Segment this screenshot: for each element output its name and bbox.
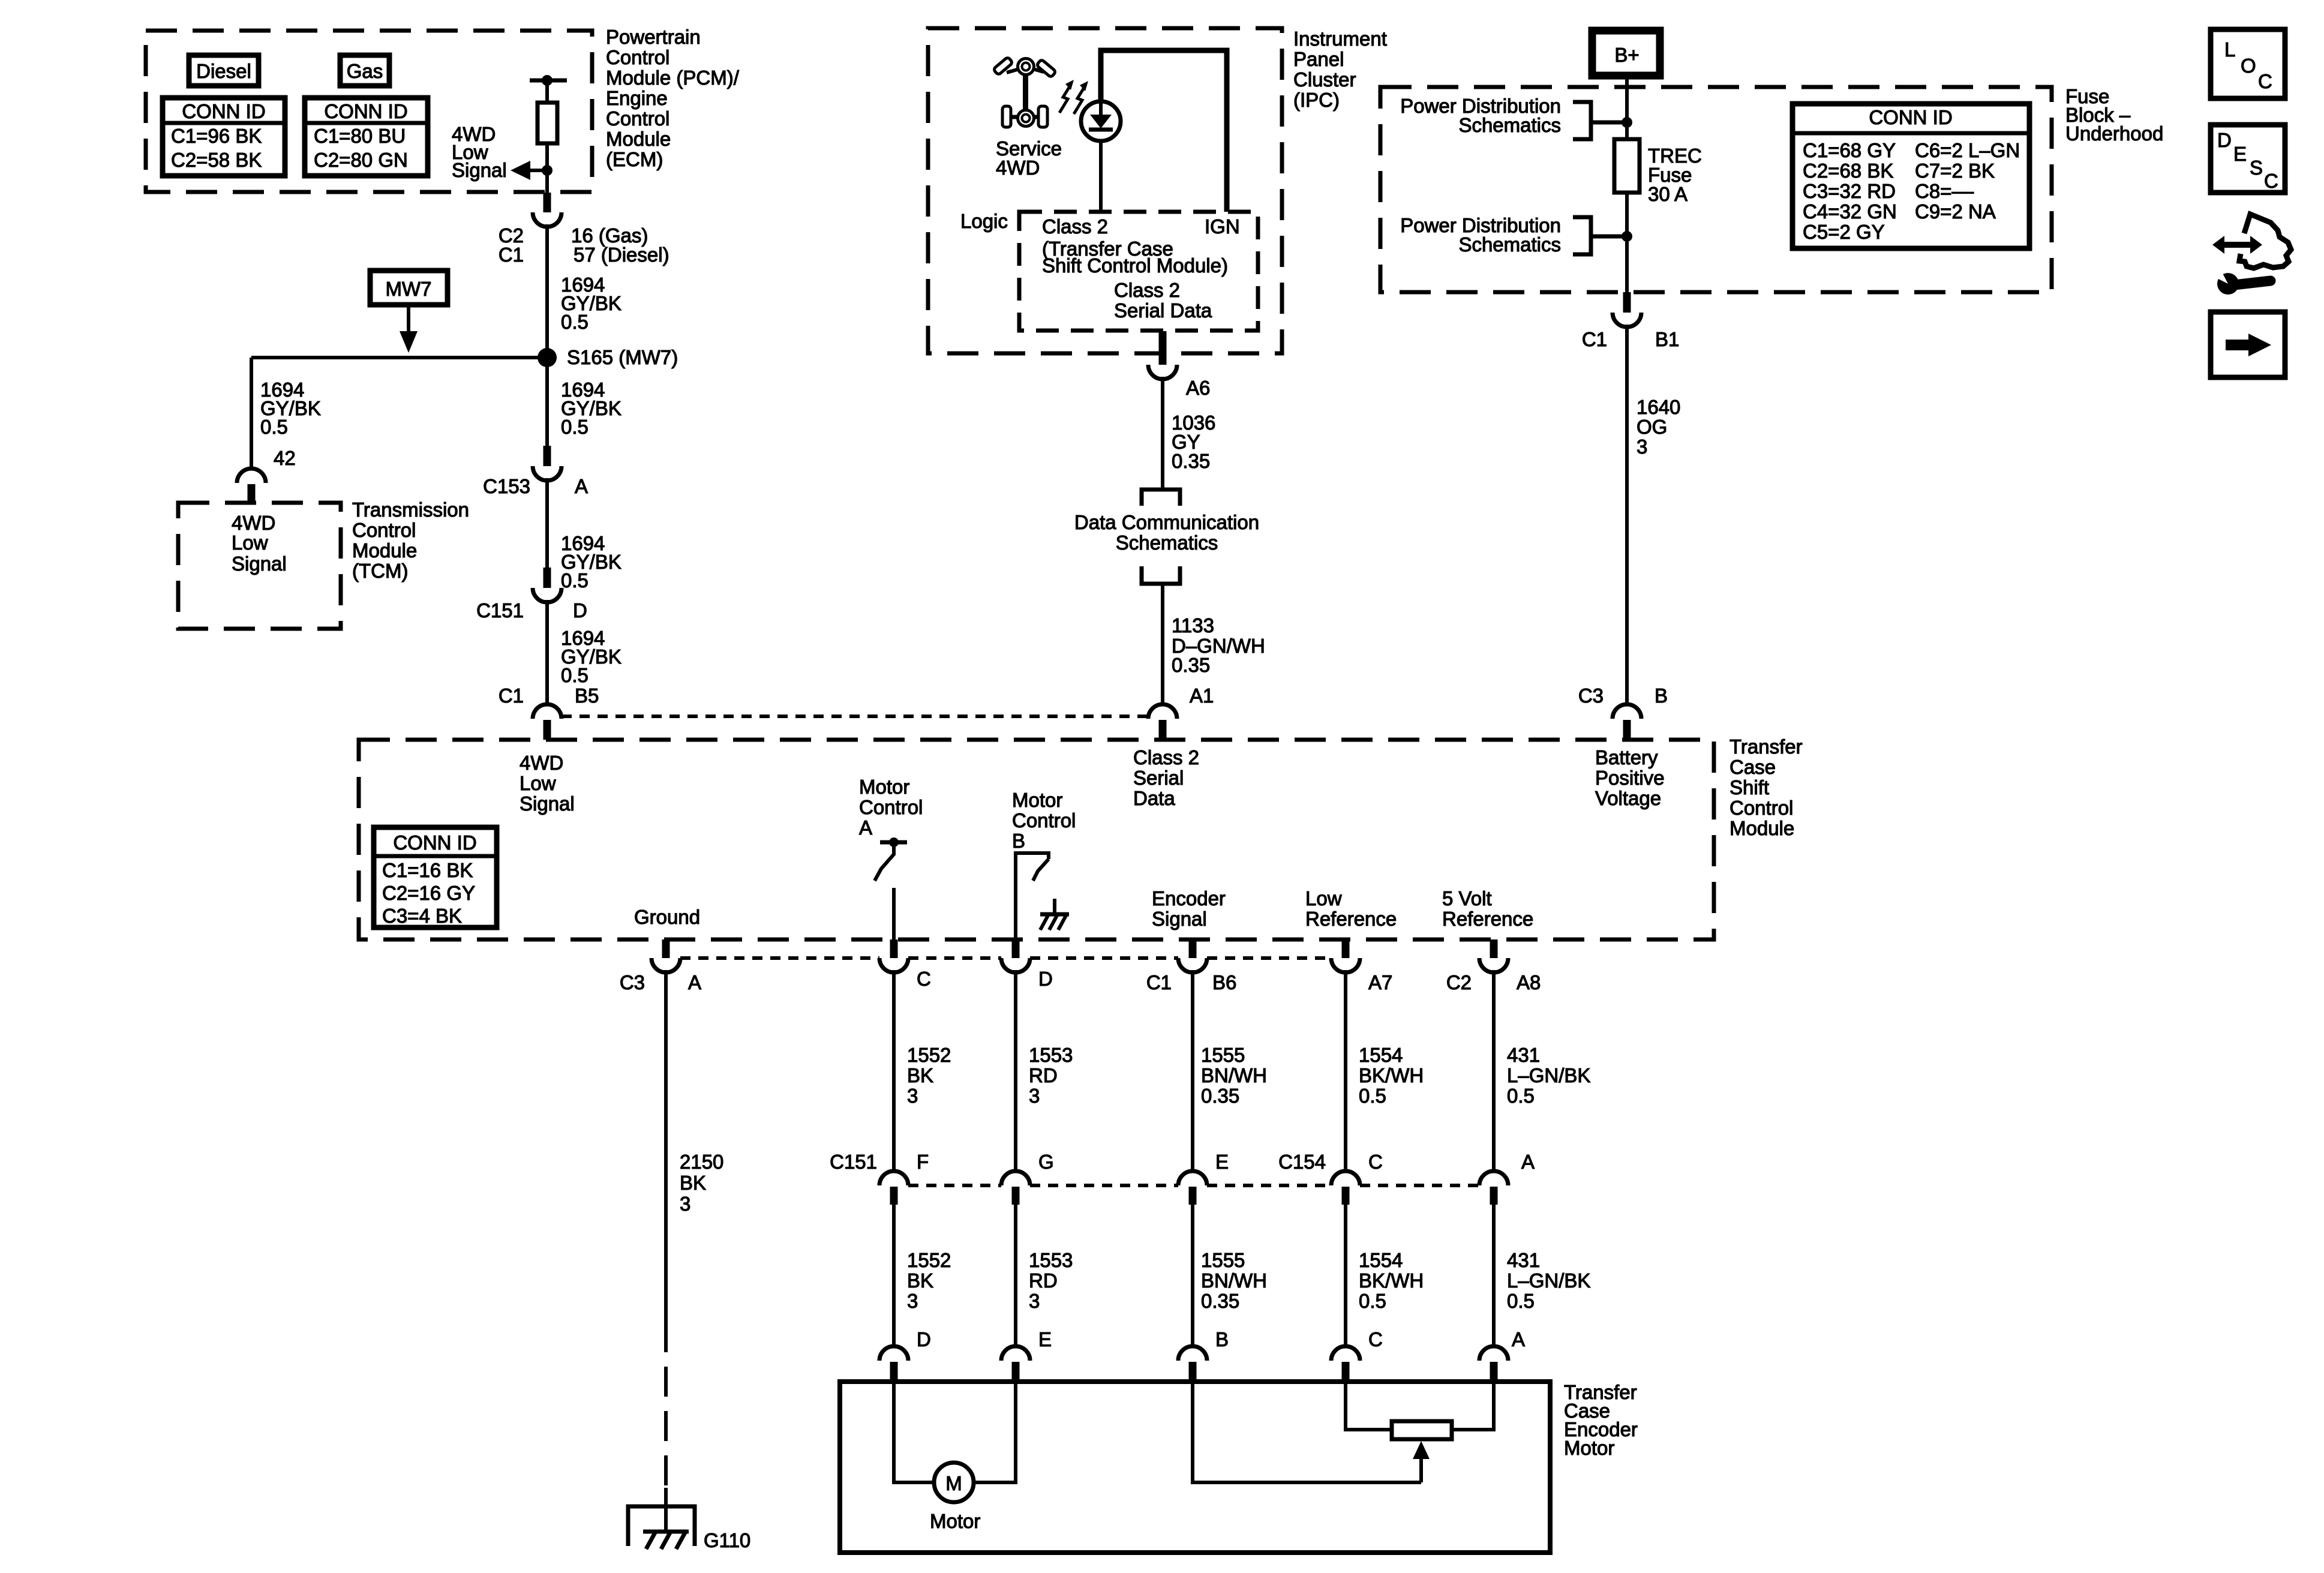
- icon: forward arrow: [2211, 312, 2285, 377]
- svg-text:D: D: [573, 599, 587, 622]
- svg-text:0.5: 0.5: [1507, 1290, 1535, 1312]
- svg-text:3: 3: [680, 1193, 690, 1215]
- svg-text:Low: Low: [1305, 887, 1342, 909]
- svg-text:431: 431: [1507, 1249, 1540, 1271]
- dotted link: C151/C154 row: [908, 1184, 1479, 1187]
- icon: LOC: [2211, 29, 2285, 98]
- module box: Fuse Block - Underhood dashed outline: [1380, 87, 2052, 292]
- svg-text:B+: B+: [1614, 44, 1639, 66]
- svg-text:Shift: Shift: [1730, 776, 1769, 798]
- svg-text:C6=2 L–GN: C6=2 L–GN: [1915, 139, 2020, 161]
- svg-text:0.35: 0.35: [1172, 654, 1210, 676]
- svg-text:0.5: 0.5: [1507, 1085, 1535, 1107]
- connector row D E B C A at encoder motor: [879, 1328, 931, 1382]
- svg-text:Class 2: Class 2: [1133, 746, 1199, 769]
- wire: C2/C1 to S165: [545, 224, 549, 358]
- svg-text:BK: BK: [907, 1064, 933, 1086]
- svg-text:3: 3: [907, 1085, 918, 1107]
- svg-text:C151: C151: [476, 599, 524, 622]
- wire: E to motor: [974, 1382, 1016, 1482]
- svg-text:30 A: 30 A: [1648, 183, 1688, 205]
- potentiometer: encoder: [1392, 1421, 1452, 1439]
- ground: motor control B internal: [1040, 899, 1069, 930]
- svg-text:C3: C3: [620, 971, 645, 993]
- module box: Transmission Control Module (TCM): [178, 503, 341, 629]
- svg-text:C3: C3: [1578, 685, 1604, 707]
- label: Class 2 Serial Data (module): [1133, 746, 1199, 809]
- svg-text:Signal: Signal: [1152, 908, 1207, 930]
- svg-text:Signal: Signal: [520, 792, 575, 815]
- wire: ground dashed section: [664, 1322, 668, 1514]
- label: Encoder Signal: [1152, 887, 1226, 930]
- label: Transfer Case Encoder Motor: [1564, 1381, 1638, 1459]
- svg-text:Schematics: Schematics: [1458, 114, 1561, 136]
- svg-text:3: 3: [1029, 1085, 1040, 1107]
- label box: Gas: [340, 55, 389, 86]
- svg-text:A: A: [575, 475, 588, 497]
- switch: motor control A: [875, 837, 907, 939]
- svg-text:Control: Control: [1730, 797, 1793, 819]
- label: circuit 1553 RD 3 (upper): [1029, 1044, 1073, 1107]
- wire: lamp top L-path to IGN: [1101, 50, 1227, 212]
- svg-text:D: D: [917, 1328, 931, 1350]
- svg-text:Motor: Motor: [1012, 789, 1062, 811]
- wire: motor A column upper: [892, 970, 896, 1171]
- connector C2/C1 at PCM bottom: [533, 193, 562, 227]
- node: junction dot lower: [1622, 231, 1632, 242]
- svg-text:Voltage: Voltage: [1595, 787, 1661, 809]
- connector C1 B1 at fuse block bottom: [1582, 292, 1680, 350]
- svg-text:Module: Module: [1730, 817, 1794, 839]
- bracket: power distribution lower: [1573, 217, 1627, 254]
- svg-text:C1: C1: [1582, 328, 1607, 350]
- svg-text:Gas: Gas: [347, 60, 383, 82]
- svg-text:Transfer: Transfer: [1730, 736, 1803, 758]
- label: circuit 1694 GY/BK 0.5 (lowest): [561, 627, 621, 686]
- label: circuit 1694 GY/BK 0.5 (branch): [260, 379, 321, 438]
- wire: 5V ref column upper: [1492, 970, 1496, 1171]
- label: Power Distribution Schematics (upper): [1400, 95, 1561, 136]
- svg-text:Engine: Engine: [606, 87, 668, 109]
- svg-text:S: S: [2250, 157, 2263, 179]
- label: circuit 1036 GY 0.35: [1172, 412, 1215, 472]
- svg-text:M: M: [945, 1472, 962, 1494]
- wire: A to potentiometer: [1452, 1382, 1494, 1430]
- svg-text:(IPC): (IPC): [1293, 89, 1340, 111]
- svg-text:S165 (MW7): S165 (MW7): [567, 346, 678, 368]
- node: splice S165 (MW7): [538, 348, 557, 367]
- svg-text:Schematics: Schematics: [1116, 532, 1218, 554]
- svg-text:C: C: [2264, 170, 2278, 192]
- wire: C153 to C151: [545, 478, 549, 568]
- svg-text:Control: Control: [1012, 809, 1076, 831]
- svg-text:Schematics: Schematics: [1458, 233, 1561, 256]
- svg-text:1553: 1553: [1029, 1044, 1073, 1066]
- connector C2 A8 at module bottom: [1446, 939, 1541, 993]
- label: 4WD Low Signal (TCM): [232, 512, 287, 575]
- svg-text:Motor: Motor: [1564, 1437, 1614, 1459]
- wire: low ref column upper: [1344, 970, 1347, 1171]
- svg-text:Reference: Reference: [1442, 908, 1533, 930]
- svg-text:1640: 1640: [1637, 396, 1680, 418]
- connector C1 B5 into module box: [499, 685, 599, 740]
- svg-text:C: C: [917, 968, 931, 990]
- svg-text:C1=16 BK: C1=16 BK: [382, 859, 473, 881]
- svg-text:5 Volt: 5 Volt: [1442, 887, 1492, 909]
- svg-text:A: A: [859, 816, 872, 839]
- motor M: [930, 1463, 980, 1532]
- svg-text:Encoder: Encoder: [1152, 887, 1226, 909]
- svg-text:4WD: 4WD: [232, 512, 275, 534]
- svg-text:RD: RD: [1029, 1269, 1058, 1292]
- svg-text:Motor: Motor: [930, 1510, 980, 1532]
- svg-text:1555: 1555: [1201, 1044, 1245, 1066]
- wire: B+ down through fuse: [1625, 76, 1629, 139]
- wires lower section: [892, 1203, 896, 1346]
- wire: branch down to connector 42: [250, 358, 253, 469]
- label: circuit 431 L-GN/BK 0.5 (upper): [1507, 1044, 1590, 1107]
- table: fuse block CONN ID: [1792, 104, 2029, 248]
- wiper arrow: [1413, 1441, 1430, 1482]
- wire: resistor to PCM box edge: [545, 143, 549, 193]
- dotted link: B5 to A1: [562, 715, 1148, 718]
- label: Transmission Control Module (TCM): [352, 499, 469, 582]
- svg-text:C2=16 GY: C2=16 GY: [382, 882, 475, 904]
- svg-text:0.5: 0.5: [561, 569, 588, 592]
- svg-text:Shift Control Module): Shift Control Module): [1042, 254, 1228, 277]
- wire: B to wiper: [1193, 1382, 1421, 1482]
- label: TREC Fuse 30 A: [1648, 145, 1702, 205]
- svg-text:1552: 1552: [907, 1249, 951, 1271]
- wire: encoder column upper: [1191, 970, 1194, 1171]
- svg-text:4WD: 4WD: [996, 157, 1040, 179]
- svg-text:C2=58 BK: C2=58 BK: [171, 149, 262, 171]
- svg-text:C4=32 GN: C4=32 GN: [1803, 200, 1897, 223]
- svg-text:(ECM): (ECM): [606, 148, 663, 170]
- svg-text:Underhood: Underhood: [2065, 122, 2163, 145]
- svg-text:Serial: Serial: [1133, 767, 1184, 789]
- label: circuit 1554 BK/WH 0.5 (upper): [1359, 1044, 1424, 1107]
- svg-text:CONN ID: CONN ID: [1869, 106, 1952, 128]
- ground G110: [628, 1488, 750, 1551]
- svg-text:Control: Control: [859, 796, 923, 818]
- wire: C to potentiometer: [1346, 1382, 1392, 1430]
- icon: part locator wrench: [2212, 214, 2291, 295]
- arrow: 4WD Low Signal (points left): [511, 161, 530, 180]
- svg-text:IGN: IGN: [1205, 215, 1240, 238]
- label: Motor Control B: [1012, 789, 1076, 852]
- svg-text:BK: BK: [680, 1172, 706, 1194]
- svg-text:C1: C1: [1146, 971, 1172, 993]
- svg-text:Signal: Signal: [232, 553, 287, 575]
- connector C3 B into module box: [1578, 685, 1668, 740]
- svg-text:Signal: Signal: [452, 159, 507, 181]
- label: Motor Control A: [859, 776, 923, 839]
- label: circuit 1133 D-GN/WH 0.35: [1172, 614, 1265, 676]
- svg-text:RD: RD: [1029, 1064, 1058, 1086]
- arrow: MW7 pointer: [400, 305, 418, 353]
- svg-text:1554: 1554: [1359, 1044, 1403, 1066]
- svg-text:C9=2 NA: C9=2 NA: [1915, 200, 1996, 223]
- connector C151 D: [476, 568, 587, 622]
- svg-text:3: 3: [907, 1290, 918, 1312]
- connector A7 at module bottom: [1331, 939, 1392, 993]
- svg-text:1553: 1553: [1029, 1249, 1073, 1271]
- svg-text:2150: 2150: [680, 1151, 723, 1173]
- connector 42 into TCM: [237, 469, 266, 504]
- label: circuit 1640 OG 3: [1637, 396, 1680, 458]
- svg-text:L: L: [2224, 38, 2235, 61]
- connector A6 at IPC bottom: [1148, 331, 1210, 399]
- svg-text:Cluster: Cluster: [1293, 68, 1356, 91]
- svg-text:A8: A8: [1517, 971, 1541, 993]
- svg-text:A: A: [688, 971, 701, 993]
- label: Powertrain Control Module (PCM)/ Engine Control Module (ECM): [606, 26, 740, 170]
- svg-text:C1: C1: [499, 685, 524, 707]
- svg-text:A: A: [1512, 1328, 1525, 1350]
- svg-text:Ground: Ground: [634, 906, 700, 928]
- svg-text:BN/WH: BN/WH: [1201, 1064, 1267, 1086]
- Data Communication Schematics reference: [1074, 490, 1259, 584]
- svg-text:0.5: 0.5: [561, 416, 588, 438]
- wire: fuse down: [1625, 193, 1629, 292]
- svg-text:L–GN/BK: L–GN/BK: [1507, 1064, 1590, 1086]
- switch: motor control B: [1016, 853, 1049, 939]
- label: circuit 431 L-GN/BK 0.5 (lower): [1507, 1249, 1590, 1312]
- svg-text:Diesel: Diesel: [196, 60, 251, 82]
- label: circuit 1555 BN/WH 0.35 (lower): [1201, 1249, 1267, 1312]
- svg-text:E: E: [1215, 1151, 1229, 1173]
- label: Fuse Block - Underhood: [2065, 85, 2163, 145]
- svg-text:Class 2: Class 2: [1114, 279, 1180, 301]
- svg-text:C151: C151: [830, 1151, 877, 1173]
- svg-text:BK/WH: BK/WH: [1359, 1269, 1424, 1292]
- svg-text:D: D: [2217, 129, 2232, 151]
- svg-text:Control: Control: [606, 46, 669, 68]
- svg-text:Data Communication: Data Communication: [1074, 511, 1259, 533]
- svg-text:C2=80 GN: C2=80 GN: [314, 149, 408, 171]
- connector D (motor control B) at module bottom: [1001, 939, 1053, 990]
- module box: Powertrain Control Module (PCM) / Engine Control Module (ECM) dashed outline: [146, 31, 592, 192]
- svg-text:431: 431: [1507, 1044, 1540, 1066]
- svg-text:E: E: [2233, 143, 2247, 165]
- svg-text:Module: Module: [606, 128, 671, 150]
- svg-text:3: 3: [1637, 436, 1647, 458]
- emission arrows: [1059, 80, 1088, 114]
- svg-text:C8=––: C8=––: [1915, 180, 1974, 202]
- svg-text:C1=96 BK: C1=96 BK: [171, 125, 262, 147]
- svg-text:3: 3: [1029, 1290, 1040, 1312]
- wire: C151 to C1/B5: [545, 600, 549, 704]
- label: Low Reference: [1305, 887, 1397, 930]
- label: 4WD Low Signal (PCM): [452, 123, 507, 181]
- svg-text:A6: A6: [1186, 377, 1210, 399]
- svg-text:A7: A7: [1368, 971, 1392, 993]
- svg-text:Transmission: Transmission: [352, 499, 469, 521]
- module box: Transfer Case Shift Control Module dashed outline: [359, 740, 1714, 939]
- svg-text:42: 42: [274, 447, 296, 469]
- label box: MW7: [370, 271, 448, 305]
- svg-text:0.5: 0.5: [1359, 1290, 1386, 1312]
- svg-text:A1: A1: [1190, 685, 1214, 707]
- svg-text:1554: 1554: [1359, 1249, 1403, 1271]
- node: junction dot upper: [1622, 117, 1632, 128]
- label: Transfer Case Shift Control Module: [1730, 736, 1803, 839]
- connector C (motor control A) at module bottom: [879, 939, 931, 990]
- svg-text:0.35: 0.35: [1172, 450, 1210, 472]
- svg-text:Low: Low: [520, 772, 556, 794]
- svg-text:C3=32 RD: C3=32 RD: [1803, 180, 1896, 202]
- svg-text:1552: 1552: [907, 1044, 951, 1066]
- svg-text:0.35: 0.35: [1201, 1085, 1239, 1107]
- svg-text:Serial Data: Serial Data: [1114, 299, 1212, 322]
- svg-text:0.5: 0.5: [561, 311, 588, 333]
- wire: D to motor: [894, 1382, 934, 1482]
- wire: tap to arrow: [530, 169, 547, 172]
- indicator LED: Service 4WD lamp: [1081, 101, 1121, 141]
- fuse TREC 30A: [1614, 139, 1640, 193]
- label: circuit 1694 GY/BK 0.5 (upper): [561, 274, 621, 333]
- connector A1 into module box: [1148, 685, 1214, 740]
- label: circuit 1553 RD 3 (lower): [1029, 1249, 1073, 1312]
- module box: logic (Class 2 Transfer Case Shift Control Module): [1019, 212, 1258, 331]
- label: circuit 1552 BK 3 (upper): [907, 1044, 951, 1107]
- svg-text:1555: 1555: [1201, 1249, 1245, 1271]
- label: circuit 1694 GY/BK 0.5 (mid): [561, 379, 621, 438]
- label: circuit 1554 BK/WH 0.5 (lower): [1359, 1249, 1424, 1312]
- wire: lamp to logic box: [1099, 141, 1103, 212]
- svg-text:0.5: 0.5: [260, 416, 288, 438]
- label: circuit 1694 GY/BK 0.5 (below C153): [561, 532, 621, 592]
- table: Gas CONN ID: [305, 98, 428, 176]
- svg-text:C: C: [1368, 1151, 1383, 1173]
- svg-text:O: O: [2241, 55, 2256, 77]
- svg-text:C1=68 GY: C1=68 GY: [1803, 139, 1896, 161]
- label: Power Distribution Schematics (lower): [1400, 214, 1561, 256]
- svg-text:G110: G110: [704, 1529, 750, 1551]
- svg-text:Battery: Battery: [1595, 746, 1658, 769]
- svg-text:Module (PCM)/: Module (PCM)/: [606, 67, 740, 89]
- table: Diesel CONN ID: [163, 98, 285, 176]
- resistor: 4WD low pull-up: [538, 103, 557, 143]
- label: Service 4WD: [996, 137, 1062, 179]
- svg-text:F: F: [917, 1151, 929, 1173]
- icon: DESC: [2211, 125, 2285, 193]
- node: rail junction dot: [542, 75, 553, 86]
- node: 4WD Low Signal tap dot: [542, 165, 553, 176]
- wire: rail to resistor: [545, 80, 549, 103]
- svg-text:OG: OG: [1637, 416, 1667, 438]
- svg-text:MW7: MW7: [386, 278, 432, 300]
- svg-text:BK/WH: BK/WH: [1359, 1064, 1424, 1086]
- svg-text:C154: C154: [1278, 1151, 1326, 1173]
- svg-text:Data: Data: [1133, 787, 1175, 809]
- connector C3 A at module bottom: [620, 939, 701, 993]
- svg-text:C: C: [2258, 70, 2272, 92]
- module box: Instrument Panel Cluster (IPC) dashed outline: [928, 28, 1282, 353]
- svg-text:CONN ID: CONN ID: [393, 831, 476, 854]
- svg-text:C3=4 BK: C3=4 BK: [382, 905, 462, 927]
- bracket: power distribution upper: [1573, 102, 1627, 139]
- svg-text:Class 2: Class 2: [1042, 215, 1108, 238]
- svg-text:B: B: [1012, 830, 1025, 852]
- wire: motor B column upper: [1014, 970, 1017, 1171]
- svg-text:E: E: [1038, 1328, 1052, 1350]
- internal rail bar in PCM: [530, 79, 567, 83]
- svg-text:Instrument: Instrument: [1293, 28, 1387, 50]
- svg-text:BN/WH: BN/WH: [1201, 1269, 1267, 1292]
- svg-text:D: D: [1038, 968, 1053, 990]
- svg-text:Low: Low: [232, 532, 268, 554]
- label: circuit 2150 BK 3: [680, 1151, 723, 1215]
- label: 5 Volt Reference: [1442, 887, 1533, 930]
- connector row C151 F G / E C154 C A: [830, 1151, 929, 1205]
- svg-text:Control: Control: [606, 107, 669, 130]
- svg-text:Case: Case: [1730, 756, 1776, 778]
- svg-text:C1=80 BU: C1=80 BU: [314, 125, 406, 147]
- wire: B1 to C3/B: [1625, 325, 1629, 704]
- connector C1 B6 at module bottom: [1146, 939, 1237, 993]
- svg-text:CONN ID: CONN ID: [324, 100, 407, 122]
- svg-text:C5=2 GY: C5=2 GY: [1803, 221, 1885, 243]
- table: module CONN ID: [374, 827, 497, 927]
- svg-text:0.5: 0.5: [561, 664, 588, 686]
- svg-text:C1: C1: [499, 244, 524, 266]
- terminal B+: [1592, 31, 1660, 76]
- dotted link: module bottom row: [680, 956, 1331, 960]
- label box: Diesel: [189, 55, 259, 86]
- wire: branch to left: [251, 356, 547, 359]
- connector C153 A: [483, 446, 588, 497]
- svg-text:Module: Module: [352, 539, 417, 562]
- pin labels C2 C1 / 16 (Gas) 57 (Diesel): [499, 224, 669, 266]
- svg-text:C7=2 BK: C7=2 BK: [1915, 160, 1995, 182]
- svg-text:(TCM): (TCM): [352, 560, 408, 582]
- svg-text:Logic: Logic: [960, 210, 1008, 232]
- svg-text:BK: BK: [907, 1269, 933, 1292]
- svg-text:A: A: [1521, 1151, 1535, 1173]
- svg-text:C: C: [1368, 1328, 1383, 1350]
- wire: A6 to data comm: [1161, 377, 1164, 490]
- label: circuit 1555 BN/WH 0.35 (upper): [1201, 1044, 1267, 1107]
- svg-text:0.5: 0.5: [1359, 1085, 1386, 1107]
- svg-text:57 (Diesel): 57 (Diesel): [574, 244, 669, 266]
- label: circuit 1552 BK 3 (lower): [907, 1249, 951, 1312]
- svg-text:B: B: [1655, 685, 1668, 707]
- svg-text:0.35: 0.35: [1201, 1290, 1239, 1312]
- svg-text:B1: B1: [1655, 328, 1679, 350]
- label: 4WD Low Signal (module): [520, 752, 575, 815]
- wire: ground C3/A down: [664, 970, 668, 1322]
- svg-text:1133: 1133: [1172, 614, 1214, 637]
- svg-text:B6: B6: [1212, 971, 1236, 993]
- svg-text:B5: B5: [575, 685, 599, 707]
- svg-text:B: B: [1215, 1328, 1229, 1350]
- svg-text:Control: Control: [352, 519, 416, 541]
- wire: data comm to A1: [1161, 584, 1164, 704]
- module box: Transfer Case Encoder Motor: [840, 1382, 1550, 1553]
- labels inside logic box: [1042, 215, 1240, 322]
- icon: Service 4WD driveline: [993, 57, 1056, 127]
- svg-text:Panel: Panel: [1293, 48, 1344, 70]
- svg-text:Positive: Positive: [1595, 767, 1665, 789]
- wire: S165 down: [545, 358, 549, 446]
- svg-text:G: G: [1038, 1151, 1054, 1173]
- svg-text:4WD: 4WD: [520, 752, 563, 774]
- svg-text:Powertrain: Powertrain: [606, 26, 701, 48]
- svg-text:C153: C153: [483, 475, 530, 497]
- svg-text:L–GN/BK: L–GN/BK: [1507, 1269, 1590, 1292]
